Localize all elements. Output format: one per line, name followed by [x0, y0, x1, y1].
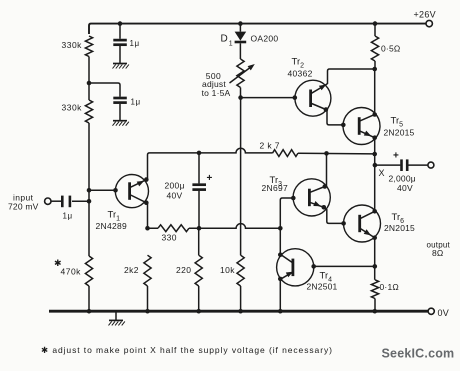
svg-text:to 1·5A: to 1·5A	[202, 88, 231, 98]
svg-text:+26V: +26V	[414, 10, 436, 20]
resistor 0.5 ohm	[374, 24, 376, 36]
svg-text:0·5Ω: 0·5Ω	[381, 44, 400, 54]
wire Tr3 base from emitter-node vertical	[280, 198, 293, 255]
svg-text:+: +	[393, 151, 399, 162]
svg-text:330k: 330k	[62, 40, 83, 50]
svg-text:0·1Ω: 0·1Ω	[380, 282, 399, 292]
ground under lower 1u	[113, 120, 127, 122]
svg-text:8Ω: 8Ω	[432, 248, 443, 258]
transistor Tr1 2N4289	[115, 175, 148, 208]
wire 2k7 to output rail	[298, 152, 375, 155]
diode D1 OA200	[239, 24, 241, 32]
wire 220 riser from emitter node	[198, 228, 200, 255]
svg-text:40V: 40V	[167, 190, 183, 200]
transistor Tr6 2N2015	[344, 205, 381, 242]
potentiometer 500 adjust to 1.5A	[237, 59, 244, 88]
transistor Tr5 2N2015	[343, 108, 380, 145]
svg-text:2,000μ: 2,000μ	[389, 173, 416, 183]
transistor Tr4 2N2501 (mirrored)	[277, 249, 314, 286]
junction dots (nodes)	[118, 21, 123, 26]
wire Tr2 emitter to Tr5 base	[326, 110, 343, 125]
svg-text:1μ: 1μ	[63, 212, 73, 221]
wire bias feedback vertical to 10k	[240, 98, 242, 256]
svg-text:10k: 10k	[220, 265, 235, 275]
ground main rail	[115, 311, 117, 320]
svg-text:1: 1	[229, 41, 233, 48]
svg-text:40V: 40V	[397, 183, 413, 193]
resistor 220	[195, 255, 202, 286]
svg-text:D: D	[221, 34, 228, 45]
wire Tr4 emitter to 0V rail	[279, 279, 281, 311]
wire Tr2 collector to 0R5 node	[326, 69, 375, 85]
wire Tr6 emitter down to 0R1	[374, 238, 376, 280]
wire Tr1 collector riser and 200u feed (node)	[146, 148, 272, 179]
wire 0R5 node down to Tr5 collector	[374, 69, 376, 114]
svg-text:SeekIC.com: SeekIC.com	[382, 347, 455, 361]
wire divider midpoint to 1u decoupler	[89, 83, 120, 97]
capacitor C 1u upper decoupling	[119, 24, 121, 39]
resistor 330 emitter	[158, 225, 189, 232]
svg-text:OA200: OA200	[251, 34, 279, 44]
wire Tr1 base	[89, 189, 115, 191]
svg-text:720 mV: 720 mV	[8, 202, 39, 212]
resistor 10k	[237, 255, 244, 286]
svg-text:0V: 0V	[438, 308, 450, 318]
wire Tr3 emitter to Tr6 base	[324, 207, 344, 223]
svg-text:✱: ✱	[54, 258, 62, 268]
resistor 2k7	[273, 150, 299, 157]
transistor Tr2 40362	[295, 80, 331, 116]
ground under upper 1u	[113, 63, 127, 65]
wire left bias vertical to Tr1 base	[88, 123, 90, 256]
terminal 0V	[428, 308, 434, 314]
svg-text:1μ: 1μ	[131, 98, 141, 107]
svg-text:2 k 7: 2 k 7	[260, 141, 280, 151]
wire Tr1 emitter node horizontal (330 / 220 / Tr3 base)	[146, 203, 158, 228]
svg-text:+: +	[207, 173, 213, 184]
svg-text:40362: 40362	[288, 69, 313, 79]
transistor Tr3 2N697	[293, 179, 330, 216]
capacitor C 1u lower decoupling	[113, 97, 127, 100]
svg-text:✱ adjust to make point X half: ✱ adjust to make point X half the supply…	[41, 345, 333, 355]
svg-text:200μ: 200μ	[165, 181, 185, 191]
wire X node to 2000u output cap	[375, 164, 400, 166]
capacitor 2000u 40V output	[400, 159, 403, 171]
wire input to Tr1 base node	[72, 200, 89, 202]
svg-text:X: X	[379, 168, 385, 178]
capacitor 1u input coupling	[61, 196, 64, 208]
wire +26V top supply rail	[89, 24, 426, 34]
svg-text:2N2015: 2N2015	[384, 223, 415, 233]
terminal +26V	[426, 20, 432, 26]
resistor 0.1 ohm	[371, 280, 378, 299]
terminal input	[45, 198, 51, 204]
wire 330k divider link	[88, 57, 90, 101]
wire 2000u cap to output terminal	[408, 164, 427, 166]
resistor 2k2	[144, 255, 151, 286]
svg-text:2N697: 2N697	[262, 183, 289, 193]
svg-text:2N2015: 2N2015	[384, 128, 415, 138]
svg-text:1μ: 1μ	[130, 39, 140, 48]
resistor 330k lower divider	[85, 100, 92, 123]
wire Tr4 base to Tr6 emitter node	[314, 265, 375, 267]
svg-text:330: 330	[162, 232, 177, 242]
resistor 470k	[85, 256, 92, 286]
svg-text:2N4289: 2N4289	[96, 221, 128, 231]
svg-text:2N2501: 2N2501	[307, 281, 338, 291]
wire 0V bottom supply rail	[49, 310, 428, 313]
wire pot wiper node to Tr2 base	[241, 97, 295, 99]
wire Tr5 emitter / X node / Tr6 collector	[374, 138, 376, 212]
resistor 330k upper divider	[85, 36, 92, 57]
svg-text:2k2: 2k2	[124, 265, 139, 275]
svg-text:470k: 470k	[61, 267, 82, 277]
terminal output (after cap)	[428, 162, 434, 168]
svg-text:220: 220	[176, 265, 191, 275]
svg-text:330k: 330k	[62, 103, 83, 113]
capacitor 200u 40V	[198, 153, 200, 184]
wire 2k7 node down to Tr3 collector	[326, 154, 328, 187]
wire 330 to 200u bottom node	[189, 224, 280, 229]
